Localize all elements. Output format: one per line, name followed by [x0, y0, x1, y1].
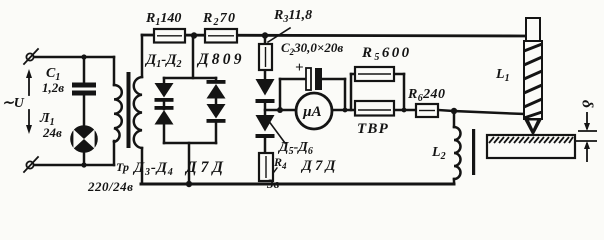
svg-text:Д3-Д4: Д3-Д4 — [132, 160, 174, 178]
svg-text:R311,8: R311,8 — [273, 8, 312, 25]
svg-text:24в: 24в — [42, 125, 62, 140]
svg-text:+: + — [295, 60, 304, 76]
svg-text:Тр: Тр — [116, 160, 129, 174]
svg-text:Д809: Д809 — [196, 51, 245, 68]
svg-text:R5600: R5600 — [361, 45, 412, 63]
svg-text:Д7Д: Д7Д — [300, 158, 339, 174]
svg-text:Д7Д: Д7Д — [184, 159, 227, 176]
svg-text:220/24в: 220/24в — [87, 179, 133, 194]
svg-text:Д5-Д6: Д5-Д6 — [277, 140, 313, 157]
svg-text:∼U: ∼U — [2, 96, 25, 111]
svg-text:R1140: R1140 — [145, 11, 181, 28]
svg-text:Д1-Д2: Д1-Д2 — [144, 52, 182, 70]
svg-text:ТВР: ТВР — [357, 121, 389, 137]
svg-text:δ: δ — [578, 100, 595, 108]
svg-text:3в: 3в — [266, 176, 280, 191]
svg-text:R6240: R6240 — [407, 87, 445, 104]
svg-text:1,2в: 1,2в — [42, 80, 64, 95]
svg-text:µА: µА — [302, 104, 322, 120]
svg-text:R270: R270 — [202, 11, 236, 28]
